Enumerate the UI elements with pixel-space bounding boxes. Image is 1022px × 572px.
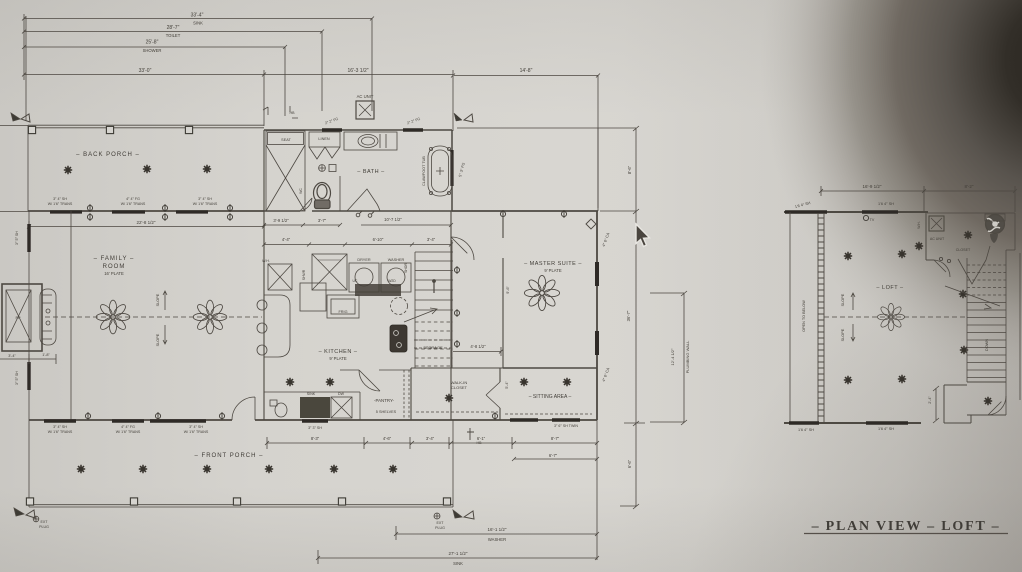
svg-text:3'-4": 3'-4" <box>427 237 436 242</box>
loft stair right wall <box>927 213 1015 415</box>
svg-text:6'-6": 6'-6" <box>627 459 632 468</box>
kitchen bar counter <box>257 295 290 357</box>
kitchen dimension row 1 <box>262 223 453 227</box>
svg-text:8'-7": 8'-7" <box>551 436 560 441</box>
svg-text:CLAWFOOT TUB: CLAWFOOT TUB <box>422 156 426 186</box>
svg-text:SEAT: SEAT <box>281 138 291 142</box>
back porch columns <box>28 126 35 133</box>
svg-text:WASHER: WASHER <box>388 258 405 262</box>
ext plug bottom left circle <box>33 516 39 522</box>
svg-text:AC UNIT: AC UNIT <box>357 94 374 99</box>
svg-text:SHOR: SHOR <box>404 263 408 273</box>
svg-text:3'-7": 3'-7" <box>318 218 327 223</box>
flags bottom left <box>14 508 35 518</box>
svg-text:SINK: SINK <box>193 21 203 26</box>
svg-text:LINEN: LINEN <box>318 137 329 141</box>
svg-text:W.H.: W.H. <box>262 259 270 263</box>
svg-text:6'-7": 6'-7" <box>549 453 558 458</box>
svg-text:EXT: EXT <box>41 520 49 524</box>
svg-text:1'6 4° SH: 1'6 4° SH <box>878 427 894 431</box>
master left wall + door <box>451 211 503 420</box>
kitchen sink counter <box>264 392 360 420</box>
closet dashed shelf <box>416 411 498 413</box>
deck roof line <box>457 127 636 129</box>
svg-text:4° 4° FG: 4° 4° FG <box>121 425 135 429</box>
back porch lights <box>64 166 72 174</box>
stairs main <box>415 252 453 310</box>
svg-text:4° 4° FG: 4° 4° FG <box>126 197 140 201</box>
walk-in closet walls <box>411 368 503 420</box>
svg-text:14'-8": 14'-8" <box>520 68 533 74</box>
svg-text:9'-6": 9'-6" <box>506 286 510 294</box>
dimension line 28'-7" TOILET <box>22 30 324 34</box>
svg-text:8'-6": 8'-6" <box>627 165 632 174</box>
svg-text:UC: UC <box>353 279 358 283</box>
svg-text:– LOFT –: – LOFT – <box>876 285 904 291</box>
front wall vent circles <box>85 412 90 420</box>
svg-text:3° 4° SH: 3° 4° SH <box>189 425 203 429</box>
fridge <box>327 295 359 318</box>
door hardware marks <box>356 211 374 217</box>
svg-text:FP: FP <box>15 315 20 320</box>
svg-text:SHWR: SHWR <box>302 269 306 280</box>
svg-text:CLOSET: CLOSET <box>451 385 468 390</box>
slope arrows family room <box>163 291 167 344</box>
storage dashed area <box>414 340 451 348</box>
svg-text:8'-2": 8'-2" <box>965 184 974 189</box>
loft stair left wall <box>966 258 968 382</box>
front porch lights <box>77 465 85 473</box>
dimension 16'-1 1/2" WASHER <box>394 420 599 560</box>
svg-text:HB: HB <box>290 111 296 115</box>
svg-text:4'-6": 4'-6" <box>383 436 392 441</box>
svg-text:12'-4 1/2": 12'-4 1/2" <box>670 348 675 365</box>
svg-text:3'-4": 3'-4" <box>8 354 16 358</box>
hb marker right of closet dim <box>467 428 474 440</box>
svg-text:W/ 1'6" TRANS: W/ 1'6" TRANS <box>184 430 209 434</box>
svg-text:4'-8 1/2": 4'-8 1/2" <box>470 344 486 349</box>
dimension line 25'-8" SHOWER <box>22 45 287 49</box>
dimension 22'-8 1/2" <box>27 221 266 231</box>
loft closet door V <box>958 246 990 284</box>
svg-text:6'-10": 6'-10" <box>373 237 384 242</box>
master top wall diamond <box>586 219 596 229</box>
closet door angled <box>486 382 500 408</box>
svg-text:WASHER: WASHER <box>488 537 506 542</box>
dimension 8'-6" vertical <box>633 126 639 214</box>
svg-text:3° 4° SH: 3° 4° SH <box>198 197 212 201</box>
svg-text:HB: HB <box>477 441 483 445</box>
svg-text:SLOPE: SLOPE <box>841 293 845 306</box>
master right wall <box>596 211 598 420</box>
tv outlet circle <box>863 215 868 220</box>
back wall windows 3'0 4'0 SH <box>50 210 208 213</box>
svg-text:SLOPE: SLOPE <box>156 293 160 306</box>
svg-text:PLUG: PLUG <box>435 526 445 530</box>
loft railing open to below <box>818 213 824 422</box>
shower stall <box>266 131 305 211</box>
loft stair section diagonal <box>945 286 1000 309</box>
svg-text:WC: WC <box>299 188 303 194</box>
loft stairs solid treads <box>967 303 1006 378</box>
dimension 27'-1 1/2" SINK <box>316 550 599 564</box>
dryer washer boxes <box>349 263 411 296</box>
stairs wall <box>415 240 452 368</box>
loft title underline <box>804 533 1008 535</box>
svg-text:4'-4": 4'-4" <box>282 237 291 242</box>
svg-text:– KITCHEN –: – KITCHEN – <box>319 349 358 355</box>
loft bottom wall windows <box>789 421 908 424</box>
dimension 6'-7" right <box>512 457 599 461</box>
loft landing door swing <box>988 396 1006 415</box>
svg-text:W/ 1'6" TRANS: W/ 1'6" TRANS <box>48 430 73 434</box>
front wall windows <box>44 420 580 421</box>
storage dim line <box>453 347 503 356</box>
svg-text:FRIG: FRIG <box>338 310 347 314</box>
toilet nook wall <box>339 176 341 211</box>
svg-text:1'6 4° SH: 1'6 4° SH <box>878 202 894 206</box>
loft top wall windows <box>785 210 898 213</box>
svg-text:-PANTRY-: -PANTRY- <box>374 398 394 403</box>
svg-text:DOWN: DOWN <box>985 339 989 351</box>
svg-text:TOILET: TOILET <box>166 33 181 38</box>
svg-text:3° 5° SH: 3° 5° SH <box>15 231 19 245</box>
pantry dashed shelves <box>404 370 409 420</box>
dimension row under front wall <box>265 437 599 449</box>
master suite top wall <box>452 210 598 212</box>
deck right wall <box>597 128 599 211</box>
loft lights <box>844 252 852 260</box>
bath top wall windows 2'0 2'0 FG <box>322 128 423 132</box>
svg-text:– BATH –: – BATH – <box>357 169 385 175</box>
ext plug bottom center <box>434 513 440 519</box>
back wall vent circles <box>87 204 92 212</box>
front porch outline <box>29 420 453 507</box>
svg-text:9' PLATE: 9' PLATE <box>329 356 346 361</box>
svg-text:EXT: EXT <box>437 521 445 525</box>
ceiling fan family room 1 <box>96 300 130 334</box>
closet door hardware <box>939 257 950 262</box>
svg-text:W.H.: W.H. <box>917 221 921 228</box>
loft closet walls <box>926 213 934 260</box>
svg-text:9' PLATE: 9' PLATE <box>544 268 561 273</box>
closet light <box>445 394 453 402</box>
dimension 12'-4 1/2" plumbing wall vertical <box>650 291 687 425</box>
svg-text:33'-0": 33'-0" <box>139 68 152 74</box>
master right wall windows <box>595 262 599 355</box>
AC unit <box>356 101 374 119</box>
loft closet door V <box>934 260 950 277</box>
kitchen island <box>300 283 326 311</box>
linen cabinet <box>309 132 340 159</box>
svg-text:AC UNIT: AC UNIT <box>930 237 945 241</box>
svg-text:3° 5° SH: 3° 5° SH <box>15 371 19 385</box>
ceiling fan family room 2 <box>193 300 227 334</box>
dimension line 33'-4" SINK <box>22 17 374 21</box>
pantry walls + door <box>340 370 411 391</box>
svg-text:W/ 1'6" TRANS: W/ 1'6" TRANS <box>48 202 73 206</box>
svg-text:3° 3° SH: 3° 3° SH <box>308 426 322 430</box>
kitchen corner shower <box>312 254 347 290</box>
ceiling fan master <box>524 275 559 310</box>
svg-text:DRYER: DRYER <box>357 258 370 262</box>
svg-text:STORAGE: STORAGE <box>423 345 443 350</box>
svg-text:– BACK PORCH –: – BACK PORCH – <box>76 152 140 158</box>
bath outline walls <box>264 130 452 211</box>
svg-text:SLOPE: SLOPE <box>841 328 845 341</box>
svg-text:1'-8": 1'-8" <box>42 353 50 357</box>
svg-text:– MASTER SUITE –: – MASTER SUITE – <box>524 261 582 267</box>
sitting area lights <box>520 378 528 386</box>
svg-text:– SITTING AREA –: – SITTING AREA – <box>529 394 572 400</box>
stair up marker <box>433 280 436 293</box>
loft ridge dashed <box>824 316 965 318</box>
left top extension line <box>25 16 27 121</box>
svg-text:SLOPE: SLOPE <box>156 333 160 346</box>
loft dimension 16'-9 1/2" / 8'-2" <box>819 186 1017 212</box>
svg-text:5'-4": 5'-4" <box>505 381 509 389</box>
small lav oval <box>270 400 287 417</box>
svg-text:– FAMILY –: – FAMILY – <box>94 256 135 262</box>
family room / kitchen divider wall <box>263 130 265 420</box>
svg-text:W/ 1'6" TRANS: W/ 1'6" TRANS <box>193 202 218 206</box>
dimension 36'-7" / 6'-6" vertical right <box>600 211 645 509</box>
left porch wrap walls <box>29 211 71 507</box>
bath fan light square <box>319 165 336 172</box>
family room front wall <box>29 419 597 421</box>
svg-text:22'-8 1/2": 22'-8 1/2" <box>137 220 156 225</box>
fireplace FP <box>2 284 56 351</box>
stairs dashed lower <box>415 322 453 366</box>
front porch columns <box>26 498 33 505</box>
svg-text:16'-3 1/2": 16'-3 1/2" <box>347 68 368 74</box>
hose bib / misc marks above bath <box>263 106 298 118</box>
master door swing <box>451 237 474 260</box>
wall outlets <box>454 266 459 274</box>
svg-text:W/ 1'6" TRANS: W/ 1'6" TRANS <box>121 202 146 206</box>
loft left wall <box>789 212 791 423</box>
svg-text:CLOSET: CLOSET <box>956 248 971 252</box>
svg-text:10'-7 1/2": 10'-7 1/2" <box>384 217 402 222</box>
master top wall vents <box>500 210 505 218</box>
svg-text:OPEN TO BELOW: OPEN TO BELOW <box>802 300 806 332</box>
flags bottom center <box>453 510 474 519</box>
svg-text:W/ 1'6" TRANS: W/ 1'6" TRANS <box>116 430 141 434</box>
loft exhaust fan circle <box>985 214 1005 243</box>
loft right edge dim line <box>1019 253 1021 400</box>
mouse cursor <box>636 224 650 247</box>
sitting area wall <box>503 367 597 369</box>
clawfoot tub <box>428 146 452 196</box>
survey flags at deck corner <box>454 113 473 122</box>
svg-text:SINK: SINK <box>307 392 316 396</box>
family room ridge dashed centerline <box>45 316 262 318</box>
svg-text:3° 4° SH: 3° 4° SH <box>53 197 67 201</box>
svg-text:DW: DW <box>338 392 345 396</box>
loft bottom wall <box>784 422 921 424</box>
svg-text:PLUG: PLUG <box>39 525 49 529</box>
svg-text:– PLAN VIEW – LOFT –: – PLAN VIEW – LOFT – <box>811 519 1001 534</box>
svg-text:3° 6° SH TWIN: 3° 6° SH TWIN <box>554 424 578 428</box>
kitchen lights <box>286 378 294 386</box>
left wall windows <box>27 224 30 390</box>
svg-text:1'6 4° SH: 1'6 4° SH <box>798 428 814 432</box>
kitchen range dark <box>390 325 407 352</box>
svg-text:SHOWER: SHOWER <box>143 48 162 53</box>
left small dimension 3'-4" 1'-8" <box>0 354 56 364</box>
svg-text:W2D: W2D <box>388 279 396 283</box>
loft landing light <box>984 397 992 405</box>
loft AC unit <box>929 216 944 231</box>
svg-text:5 SHELVES: 5 SHELVES <box>376 410 397 414</box>
svg-text:3'-9 1/2": 3'-9 1/2" <box>273 218 289 223</box>
svg-text:3'-4": 3'-4" <box>426 436 435 441</box>
svg-text:16' PLATE: 16' PLATE <box>104 271 124 276</box>
svg-text:28'-7": 28'-7" <box>167 25 180 31</box>
svg-text:16'-9 1/2": 16'-9 1/2" <box>863 184 882 189</box>
svg-text:27'-1 1/2": 27'-1 1/2" <box>449 551 468 556</box>
toilet <box>314 183 331 209</box>
dimension line 33'-0" / 16'-3 1/2" / 14'-8" <box>22 73 600 78</box>
front door swing <box>232 397 255 420</box>
kitchen ceiling light dashed circle <box>391 298 408 315</box>
svg-text:2'-4": 2'-4" <box>928 396 932 404</box>
bath door swings <box>300 198 312 211</box>
svg-text:PLUMBING WALL: PLUMBING WALL <box>685 340 690 374</box>
dimension extension verticals top <box>24 14 598 208</box>
svg-text:25'-8": 25'-8" <box>146 40 159 46</box>
svg-text:36'-7": 36'-7" <box>626 310 631 321</box>
loft top wall <box>784 211 928 213</box>
svg-text:– FRONT PORCH –: – FRONT PORCH – <box>195 453 264 459</box>
kitchen dimension row 2 <box>262 243 453 247</box>
svg-text:SINK: SINK <box>453 561 463 566</box>
sitting area dashed line <box>505 413 592 415</box>
svg-text:3° 4° SH: 3° 4° SH <box>53 425 67 429</box>
bath entry door peak <box>347 189 380 211</box>
loft stairs dashed upper treads <box>967 265 1006 295</box>
house back wall <box>28 210 264 212</box>
kitchen upper appliances: water heater <box>268 264 292 290</box>
svg-text:33'-4": 33'-4" <box>191 13 204 19</box>
bath vanity sink <box>344 132 397 150</box>
svg-text:ROOM: ROOM <box>103 264 126 270</box>
flag top left <box>11 113 30 122</box>
loft 2'-4" dim <box>933 386 939 423</box>
svg-text:16'-1 1/2": 16'-1 1/2" <box>488 527 507 532</box>
svg-text:8'-3": 8'-3" <box>311 436 320 441</box>
back porch outline <box>0 125 264 212</box>
bath right wall window 5'0 3'0 FG <box>450 150 453 186</box>
ceiling fan loft <box>877 303 904 330</box>
loft stair bottom landing <box>944 382 1006 423</box>
svg-text:TV: TV <box>870 218 875 222</box>
stair direction arrow <box>404 308 437 322</box>
loft slope arrows <box>851 293 855 341</box>
